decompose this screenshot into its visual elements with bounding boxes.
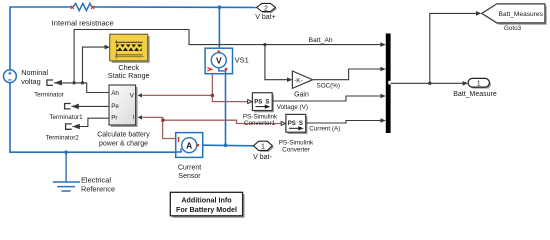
wire: gain output SOC <box>313 69 382 80</box>
mux bar <box>386 34 391 134</box>
svg-text:Reference: Reference <box>81 184 115 193</box>
svg-text:Internal resistnace: Internal resistnace <box>52 18 114 27</box>
node: Ah/terminator junction <box>73 81 76 84</box>
arrow into converter1 (hollow) <box>248 100 252 104</box>
wire: Pe to terminator1 <box>72 105 110 107</box>
node: check-range junction <box>81 81 84 84</box>
terminator T1 <box>65 104 79 110</box>
wire: converter2 output Current (A) <box>306 121 381 124</box>
VS1 voltage sensor block <box>205 48 232 73</box>
goto tag Goto3 (shadow) <box>484 6 547 25</box>
svg-text:SOC(%): SOC(%) <box>317 83 340 90</box>
svg-text:Batt_Measure: Batt_Measure <box>453 91 497 98</box>
svg-text:Terminator1: Terminator1 <box>49 114 83 121</box>
svg-text:Goto3: Goto3 <box>504 25 522 32</box>
PS-Simulink converter2 (shadow) <box>288 116 308 134</box>
port V bat+ hexagon (shadow) <box>258 5 277 13</box>
wire: converter1 output Voltage (V) <box>273 96 382 101</box>
svg-text:Current (A): Current (A) <box>309 125 340 132</box>
arrow mux input 4 <box>380 118 385 123</box>
PS-Simulink converter2 <box>286 114 306 132</box>
svg-text:S: S <box>265 99 269 105</box>
arrow into gain <box>287 77 292 82</box>
arrow V input (into block, pointing left) <box>138 93 142 97</box>
node: V net junction <box>211 94 215 98</box>
node: ground junction <box>64 150 68 154</box>
block Calculate battery power &amp; charge (shadow) <box>111 87 138 127</box>
port V bat- hexagon <box>254 141 273 150</box>
svg-text:Static Range: Static Range <box>108 71 150 80</box>
svg-text:VS1: VS1 <box>235 56 249 65</box>
svg-text:Batt_Measures: Batt_Measures <box>499 11 544 18</box>
annotation box Additional Info For Battery Model <box>170 192 242 216</box>
svg-text:Batt_Ah: Batt_Ah <box>309 37 333 44</box>
svg-text:2: 2 <box>264 5 268 12</box>
port V bat+ hexagon <box>257 3 276 11</box>
svg-text:V bat-: V bat- <box>253 154 272 161</box>
arrow mux input 1 <box>380 42 385 47</box>
arrow into check block <box>105 45 110 50</box>
wire: Pr to terminator2 <box>73 118 110 126</box>
svg-text:-K-: -K- <box>294 77 302 84</box>
annotation box Additional Info (shadow) <box>172 194 244 218</box>
svg-text:V: V <box>216 55 222 65</box>
svg-text:Pe: Pe <box>111 103 119 110</box>
svg-text:Additional Info: Additional Info <box>181 196 232 205</box>
svg-text:I: I <box>132 114 134 121</box>
ground electrical reference <box>53 152 80 191</box>
block Check Static Range (shadow) <box>112 36 150 63</box>
resistor terminal marker right (red) <box>91 6 94 9</box>
node: I net junction <box>161 118 165 122</box>
wire: maroon V measurement net <box>142 74 248 102</box>
svg-text:voltag: voltag <box>21 77 40 86</box>
svg-text:Ah: Ah <box>111 90 119 97</box>
svg-text:V bat+: V bat+ <box>255 14 275 21</box>
node: sensor output junction <box>224 143 228 147</box>
voltage source (Nominal voltag) <box>3 70 16 83</box>
block Calculate battery power & charge <box>109 85 136 125</box>
svg-text:Calculate battery: Calculate battery <box>97 132 150 139</box>
wire: black net Ah to terminator/check/mux <box>54 30 381 93</box>
mux output notch <box>388 81 390 85</box>
svg-text:PS: PS <box>288 121 296 127</box>
svg-text:Pr: Pr <box>111 115 117 122</box>
svg-text:Terminator: Terminator <box>34 91 64 98</box>
arrow into converter2 (hollow) <box>281 122 285 126</box>
svg-text:A: A <box>186 140 192 150</box>
wire: blue drop from top net to VS1 <box>218 7 220 48</box>
gain block <box>292 71 312 88</box>
svg-text:Nominal: Nominal <box>21 68 48 77</box>
svg-text:PS: PS <box>254 99 262 105</box>
port V bat- hexagon (shadow) <box>255 143 274 152</box>
svg-text:Electrical: Electrical <box>81 176 111 185</box>
wire: blue from VS1 bottom down to sensor output net <box>225 74 227 146</box>
resistor terminal marker left (red) <box>71 6 74 9</box>
node: output junction <box>428 82 431 85</box>
terminator T2 <box>66 124 80 130</box>
block Check Static Range <box>110 34 148 61</box>
resistor R internal (zigzag) <box>70 3 94 10</box>
arrow into outport <box>463 81 468 86</box>
svg-text:S: S <box>299 121 303 127</box>
wire: branch up to Goto3 <box>430 13 477 83</box>
wire: top blue net from source to resistor to V bat+ <box>10 7 256 70</box>
PS-Simulink converter1 (shadow) <box>254 95 274 113</box>
arrow into Goto3 <box>476 11 481 16</box>
outport Batt_Measure <box>468 78 489 87</box>
current sensor block <box>176 133 203 158</box>
node: top junction <box>218 5 222 9</box>
arrow I input (into block, pointing left) <box>138 115 142 119</box>
svg-text:Converter: Converter <box>282 146 310 153</box>
svg-text:Converter1: Converter1 <box>244 120 276 127</box>
svg-text:For Battery Model: For Battery Model <box>176 205 237 214</box>
wire: left blue vertical + bottom run to current sensor <box>10 83 176 153</box>
wire: maroon I measurement net <box>142 117 281 138</box>
svg-text:power & charge: power & charge <box>99 141 148 148</box>
svg-text:Current: Current <box>178 165 201 172</box>
svg-text:Voltage (V): Voltage (V) <box>277 104 308 111</box>
node: gain feed junction <box>263 43 266 46</box>
terminator T0 <box>47 80 62 86</box>
arrow mux input 2 <box>380 67 385 72</box>
svg-text:1: 1 <box>477 81 481 88</box>
wire: sensor output to V bat- <box>203 144 254 147</box>
wire: mux output net <box>391 82 464 84</box>
outport Batt_Measure (shadow) <box>470 80 491 89</box>
svg-text:1: 1 <box>261 144 265 151</box>
svg-text:Gain: Gain <box>294 92 309 99</box>
arrow mux input 3 <box>380 94 385 99</box>
svg-text:Sensor: Sensor <box>178 173 201 180</box>
svg-text:Terminator2: Terminator2 <box>46 134 80 141</box>
PS-Simulink converter1 <box>252 93 272 111</box>
goto tag Goto3 <box>482 4 545 23</box>
